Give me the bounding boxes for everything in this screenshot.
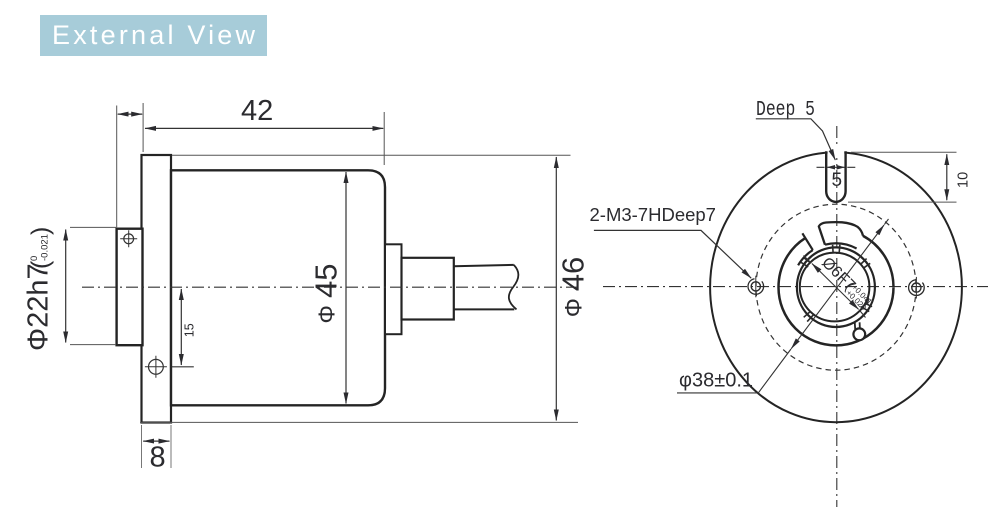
dimension 10 — [848, 152, 972, 202]
svg-text:15: 15 — [182, 323, 196, 337]
svg-text:-0.021: -0.021 — [40, 234, 51, 261]
svg-text:Φ: Φ — [314, 305, 340, 323]
clamp ring tab — [798, 222, 863, 265]
svg-text:8: 8 — [150, 442, 166, 474]
serration ticks — [801, 245, 872, 322]
inner bore circle B — [800, 253, 870, 322]
title bar External View — [40, 15, 267, 56]
svg-text:Φ: Φ — [561, 298, 588, 317]
right M3 screw hole — [909, 277, 925, 299]
dimension phi45 — [309, 172, 347, 404]
left M3 screw hole — [748, 276, 764, 298]
clamp screw eyelet — [853, 322, 865, 340]
inner collar circle A — [797, 247, 875, 327]
cable slot at top — [826, 151, 845, 202]
label Deep 5 with leader — [756, 97, 836, 160]
svg-text:10: 10 — [956, 172, 972, 188]
svg-text:Deep 5: Deep 5 — [756, 97, 815, 122]
svg-text:): ) — [27, 227, 55, 235]
shaft boss step 1 — [385, 244, 402, 334]
hub boss (22mm pilot) — [117, 229, 143, 346]
svg-text:46: 46 — [556, 257, 591, 291]
vertical centerline right view — [836, 126, 838, 507]
svg-text:2-M3-7HDeep7: 2-M3-7HDeep7 — [590, 204, 716, 225]
flange plate — [142, 155, 172, 423]
dimension phi22h7 — [23, 227, 117, 351]
mounting hole crosshair on hub — [120, 230, 137, 247]
dimension 15 — [172, 289, 197, 367]
dimension 8 — [142, 425, 172, 474]
svg-text:Φ22h7: Φ22h7 — [23, 263, 55, 351]
dimension phi38 diagonal with label — [677, 219, 889, 393]
mounting hole crosshair on flange — [145, 356, 167, 378]
horizontal centerline right view — [603, 286, 988, 288]
small unlabeled dimension top-left — [117, 106, 143, 229]
body — [171, 170, 385, 405]
dimension 5 (slot width) — [817, 167, 856, 191]
svg-text:42: 42 — [241, 95, 273, 127]
bolt circle phi38 dashed — [756, 204, 916, 370]
clamp ring outer arc with notch — [779, 229, 894, 345]
centerline left view — [82, 286, 578, 288]
shaft collar step 2 — [402, 258, 454, 320]
shaft with break line — [454, 265, 519, 310]
svg-text:0: 0 — [29, 256, 40, 261]
dimension 42 — [143, 95, 384, 165]
dimension phi46 — [140, 155, 591, 422]
svg-text:5: 5 — [832, 170, 843, 191]
label 2-M3-7HDeep7 with leader — [590, 204, 752, 278]
outer housing circle — [710, 144, 962, 422]
dimension phi6F7 diagonal — [804, 254, 876, 317]
svg-text:φ38±0.1: φ38±0.1 — [679, 370, 753, 392]
svg-text:45: 45 — [309, 264, 344, 298]
